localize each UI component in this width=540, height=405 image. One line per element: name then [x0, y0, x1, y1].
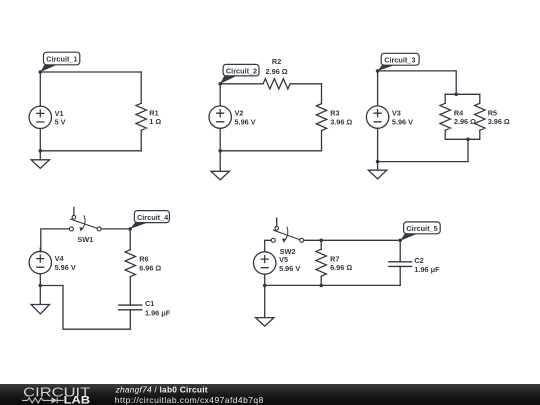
wire C1 bottom c4 [63, 286, 130, 330]
svg-text:R5: R5 [488, 108, 497, 117]
node c3 parbottom [466, 138, 470, 142]
svg-text:zhangf74 / lab0 Circuit: zhangf74 / lab0 Circuit [115, 385, 208, 395]
svg-text:2.96 Ω: 2.96 Ω [454, 117, 476, 126]
wire V4 bottom link [40, 285, 63, 287]
svg-text:5.96 V: 5.96 V [392, 117, 413, 126]
switch SW1 [69, 208, 101, 232]
wire switch-to-C2 c5 [304, 239, 401, 241]
voltage source V4 [29, 251, 51, 273]
resistor R1 [136, 103, 146, 130]
wire bottom-right c3 [378, 139, 468, 161]
wire parallel top bar [445, 93, 480, 95]
node c4 top [128, 227, 132, 231]
svg-text:V3: V3 [392, 109, 401, 118]
svg-text:R2: R2 [272, 57, 281, 66]
wire R7 top stub [320, 240, 322, 249]
svg-text:Circuit_4: Circuit_4 [137, 213, 169, 222]
node c5 C2 top [398, 239, 402, 243]
wire V4 stem [39, 248, 41, 286]
resistor R2 [263, 79, 290, 89]
node c5 R7 bottom [319, 284, 323, 288]
wire bottom c2 [220, 150, 321, 152]
svg-text:V5: V5 [279, 255, 288, 264]
svg-text:Circuit_1: Circuit_1 [46, 55, 77, 64]
resistor R3 [316, 104, 326, 131]
wire top-right c2 [290, 83, 321, 85]
wire R7 bottom stub [320, 276, 322, 285]
logo resistor-diode line [22, 398, 64, 404]
svg-text:1 Ω: 1 Ω [149, 117, 161, 126]
node c3 partop [454, 93, 458, 97]
wire bottom c5 [265, 284, 401, 286]
wire left-bottom c1 [39, 129, 41, 151]
voltage source V3 [366, 106, 388, 128]
svg-text:5 V: 5 V [55, 118, 66, 127]
resistor R4 [440, 103, 450, 130]
voltage source V2 [209, 106, 231, 128]
svg-text:1.96 μF: 1.96 μF [414, 265, 440, 274]
svg-text:Circuit_3: Circuit_3 [384, 55, 415, 64]
resistor R7 [316, 249, 326, 276]
svg-text:V4: V4 [55, 254, 65, 263]
resistor R5 [475, 103, 485, 130]
switch SW2 [271, 218, 303, 243]
svg-text:V2: V2 [235, 109, 244, 118]
svg-text:R6: R6 [139, 255, 148, 264]
node c5 R7 top [319, 239, 323, 243]
wire top-left c5 [265, 240, 272, 252]
wire left c3 [377, 71, 379, 162]
ground c1 [31, 151, 49, 169]
svg-text:5.96 V: 5.96 V [235, 117, 256, 126]
wire R4 stubs [444, 94, 446, 139]
node c3 bottom [376, 160, 380, 164]
svg-text:6.96 Ω: 6.96 Ω [330, 263, 352, 272]
node c5 V5 bottom [263, 284, 267, 288]
svg-text:R1: R1 [149, 108, 158, 117]
wire right c1 [140, 72, 142, 151]
wire C2 column [399, 240, 401, 285]
node c1 bottom [39, 149, 43, 153]
wire top c3 [378, 71, 457, 94]
svg-text:V1: V1 [55, 109, 64, 118]
svg-text:C2: C2 [414, 256, 423, 265]
label Circuit_4 [130, 211, 169, 229]
svg-text:1.96 μF: 1.96 μF [145, 308, 171, 317]
svg-text:5.96 V: 5.96 V [55, 263, 76, 272]
svg-text:6.96 Ω: 6.96 Ω [139, 264, 161, 273]
svg-text:SW1: SW1 [77, 235, 93, 244]
ground c5 [256, 285, 274, 326]
voltage source V5 [254, 252, 276, 274]
label Circuit_3 [378, 53, 420, 71]
wire top c1 [40, 71, 141, 73]
svg-text:3.96 Ω: 3.96 Ω [330, 117, 352, 126]
svg-text:2.96 Ω: 2.96 Ω [266, 67, 288, 76]
svg-text:Circuit_5: Circuit_5 [406, 224, 437, 233]
wire switch-to-node c4 [101, 228, 130, 230]
wire left c2 [219, 84, 221, 151]
svg-text:LAB: LAB [64, 395, 91, 405]
capacitor C1 [119, 305, 142, 310]
node c2 top [218, 82, 222, 86]
label Circuit_2 [220, 64, 259, 83]
wire V5 stem [264, 274, 266, 285]
svg-text:Circuit_2: Circuit_2 [226, 66, 257, 75]
label Circuit_5 [400, 222, 440, 241]
svg-text:5.96 V: 5.96 V [279, 264, 300, 273]
svg-text:3.96 Ω: 3.96 Ω [488, 117, 510, 126]
svg-text:R4: R4 [454, 108, 464, 117]
wire R5 stubs [479, 94, 481, 139]
ground c3 [368, 162, 386, 179]
ground c2 [211, 151, 229, 180]
wire right c4 [129, 229, 131, 305]
wire left-top c1 [39, 72, 41, 106]
label Circuit_1 [40, 52, 80, 72]
node c1 top [39, 70, 43, 74]
svg-text:http://circuitlab.com/cx497afd: http://circuitlab.com/cx497afd4b7q8 [115, 395, 264, 405]
resistor R6 [125, 250, 135, 277]
node c2 bottom [218, 149, 222, 153]
wire parallel bottom bar [445, 138, 480, 140]
wire top-left c4 [41, 229, 70, 251]
svg-text:R7: R7 [330, 254, 339, 263]
wire top-left c2 [220, 83, 263, 85]
wire right c2 [321, 84, 323, 151]
voltage source V1 [29, 106, 51, 128]
capacitor C2 [389, 262, 412, 267]
svg-text:R3: R3 [330, 109, 339, 118]
node c4 vbottom [39, 284, 43, 288]
ground c4 [31, 286, 49, 315]
svg-text:C1: C1 [145, 299, 154, 308]
wire bottom c1 [40, 150, 141, 152]
node c3 top-left [376, 69, 380, 73]
